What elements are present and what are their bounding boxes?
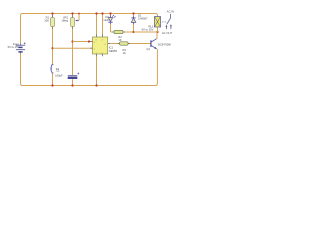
wire left vertical (battery bottom lead) [21,53,23,85]
svg-text:Q1: Q1 [146,47,150,51]
junction dot bottom rail at S1 [51,84,53,86]
wire relay coil bottom to node [157,27,159,32]
wire Q1 emitter down to ground rail [156,49,158,85]
junction dot top rail at D1 [132,12,134,14]
diode D1 [131,16,136,25]
wire pin3 output row to R3 [108,43,120,45]
relay contact AC IN lead [170,14,172,18]
junction dot relay node left [132,31,134,33]
svg-text:LED: LED [104,18,109,22]
relay contact arrow left [165,26,167,29]
wire relay node row [134,31,158,33]
svg-text:1K: 1K [123,51,126,55]
svg-text:6V to 15V: 6V to 15V [142,27,154,31]
relay coil RL1 [155,17,161,28]
svg-text:1N4007: 1N4007 [138,17,148,21]
junction dot bottom rail at C1 [71,84,73,86]
junction dot trigger tap [51,47,53,49]
relay contact arm [167,18,171,24]
svg-text:100µF: 100µF [55,74,63,78]
wire wiper to top rail [78,14,80,21]
wire LED column top [110,14,112,16]
wire left vertical (battery top lead) [21,14,23,44]
junction dot top rail pin4 [101,12,103,14]
junction dot wiper at rail [78,13,80,15]
wire timing row to IC pin6 [73,41,93,43]
svg-text:BC547/548: BC547/548 [158,44,171,47]
svg-text:10K: 10K [44,19,49,23]
transistor Q1 [151,39,157,49]
wire switch bottom to ground rail [52,73,54,85]
wire trigger row to IC pin2 [53,47,93,49]
wire Q1 collector up to relay node [156,32,158,39]
wire D1 column top [133,14,135,16]
battery V1 input [16,42,26,53]
wire IC pin8 column [96,14,98,35]
switch S1 [51,65,53,73]
wire R1 bottom to switch [52,27,54,65]
resistor R1 [51,18,55,27]
wire D1 anode down to relay node [133,24,135,32]
resistor R3 [120,42,129,45]
svg-text:1Meg: 1Meg [61,19,68,23]
junction dot timing node [71,40,73,42]
wire R3 to Q1 base [128,43,150,45]
relay contact arrow right [170,25,172,29]
junction dot top rail at LED [109,12,111,14]
svg-text:5V to 15V: 5V to 15V [8,45,20,49]
wire C1 bottom to ground rail [72,79,74,85]
wire bottom rail [22,85,156,87]
wire top rail [22,13,156,15]
wire R1 column top [52,14,54,18]
potentiometer VR1 wiper arrow [76,20,79,22]
potentiometer VR1 [71,18,75,27]
wire IC pin4 column [102,14,104,35]
wire R2 to D1 node [123,31,134,33]
wire VR1 bottom to capacitor [72,27,74,76]
junction dot top rail at R1 [51,12,53,14]
component lead stubs (gray pins) [53,15,130,56]
wire IC pin1 to ground rail [96,56,98,85]
junction dot top rail at VR1 [71,12,73,14]
svg-text:NE555: NE555 [109,49,118,53]
svg-text:1K: 1K [118,38,121,42]
capacitor C1 [68,73,80,78]
wire LED cathode down and right to R2 [111,24,115,32]
op-amp U1 IC1 NE555 body [93,37,108,54]
wire rail corner to relay coil top [156,14,158,17]
junction dot top rail pin8 [95,12,97,14]
svg-text:AC OUT: AC OUT [162,31,173,35]
svg-text:AC IN: AC IN [167,9,174,13]
junction dot at IC pin6 [88,40,90,42]
wire VR1 column top [72,14,74,18]
LED D2 [108,15,115,25]
svg-text:C1: C1 [56,69,60,73]
junction dot bottom rail at pin1 [95,84,97,86]
junction dot relay node right [156,31,158,33]
relay mechanical link dots [162,20,166,23]
resistor R2 [114,30,123,33]
